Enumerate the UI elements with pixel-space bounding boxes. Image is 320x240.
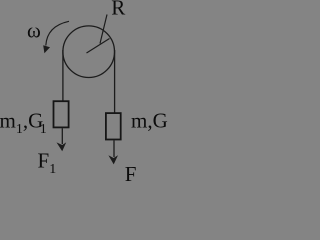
svg-text:F: F: [125, 162, 137, 186]
svg-text:m,G: m,G: [131, 109, 168, 133]
svg-text:R: R: [111, 0, 125, 20]
svg-text:ω: ω: [27, 18, 41, 42]
